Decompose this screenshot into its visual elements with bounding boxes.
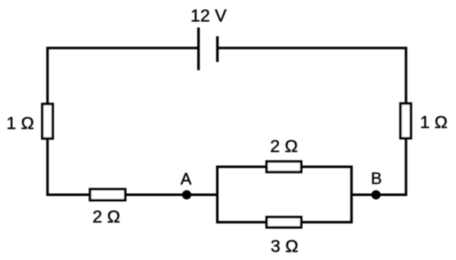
resistor R5 (3 ohm, parallel bottom branch) (267, 217, 302, 227)
svg-text:2 Ω: 2 Ω (270, 136, 298, 156)
resistor R2 (2 ohm, series bottom-left) (90, 189, 125, 200)
svg-text:3 Ω: 3 Ω (271, 236, 299, 256)
svg-text:1 Ω: 1 Ω (6, 113, 34, 133)
label: B (node name) (371, 170, 382, 188)
label: A (node name) (180, 171, 191, 189)
node B (junction dot) (371, 190, 380, 199)
battery V1 (12 V source, long and short plates) (199, 28, 218, 71)
svg-text:12 V: 12 V (191, 5, 227, 25)
node A (junction dot) (182, 190, 191, 199)
label: 1 ohm (right resistor value) (420, 112, 448, 132)
wire: parallel network loop (rectangle joining 2 ohm and 3 ohm branches) (217, 167, 351, 222)
label: 12 V (battery value) (191, 5, 227, 25)
wire: parallel network right side to node B (352, 194, 378, 197)
svg-text:1 Ω: 1 Ω (420, 112, 448, 132)
svg-text:B: B (371, 170, 382, 188)
resistor R4 (1 ohm, right side) (401, 104, 411, 139)
svg-text:A: A (180, 171, 191, 189)
wire: bottom rail (left side through R2 to node A into parallel network) (47, 194, 219, 197)
resistor R1 (1 ohm, left side) (42, 104, 52, 139)
wire: left branch (bottom-left corner up through R1 to battery left terminal) (48, 48, 199, 196)
label: 3 ohm (parallel bottom branch value) (271, 236, 299, 256)
svg-text:2 Ω: 2 Ω (93, 206, 121, 226)
wire: right branch (battery right terminal across top, down through R4 to node B) (217, 48, 406, 195)
label: 2 ohm (parallel top branch value) (270, 136, 298, 156)
label: 2 ohm (series resistor value) (93, 206, 121, 226)
label: 1 ohm (left resistor value) (6, 113, 34, 133)
resistor R3 (2 ohm, parallel top branch) (267, 162, 302, 173)
